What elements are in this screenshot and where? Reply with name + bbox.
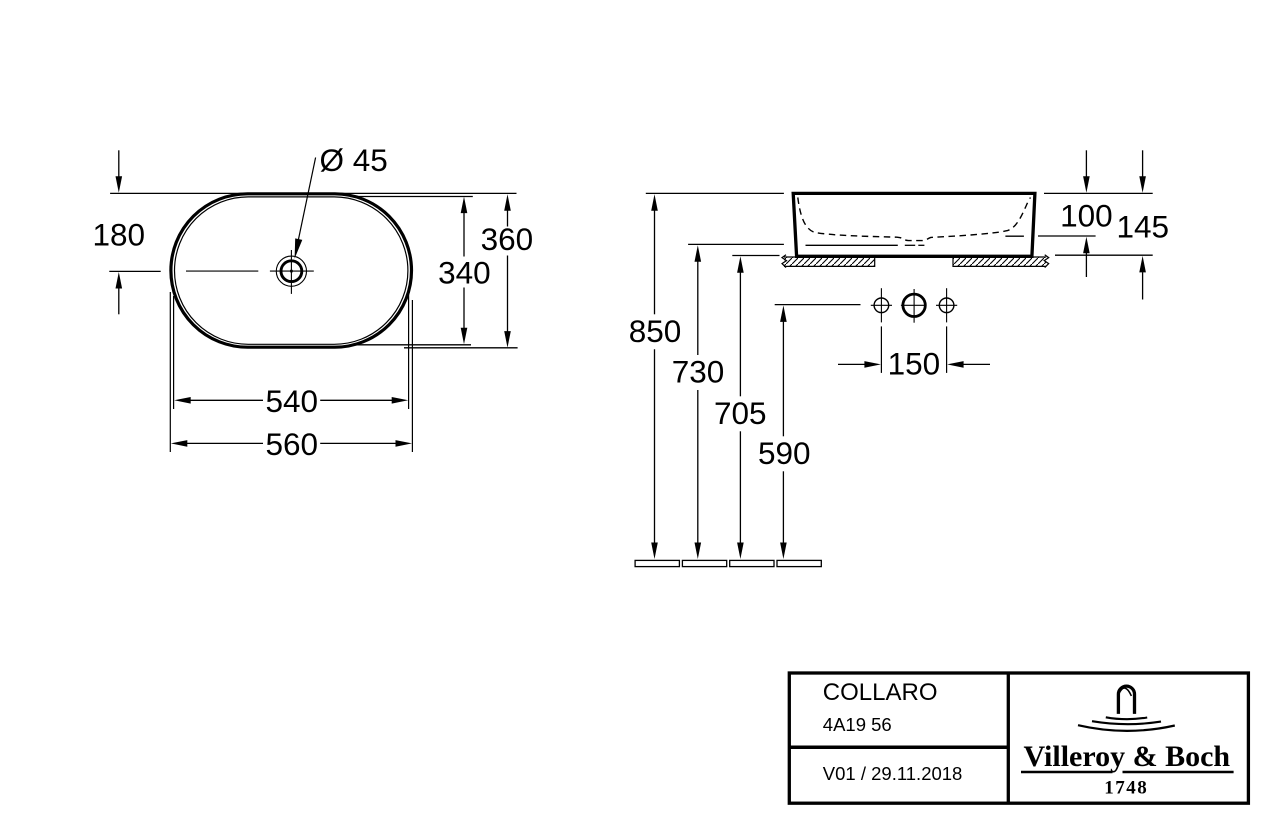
basin inner profile (hidden dashed line) [798, 198, 1031, 241]
leader line for diameter 45 [298, 158, 316, 244]
title block horizontal divider [789, 746, 1008, 750]
drain center dot [290, 270, 293, 273]
dimension 850: top extension line [646, 192, 784, 194]
faucet hole right (small circle with crosshair) [939, 298, 954, 313]
dimension 180: top arrow [118, 150, 120, 177]
dimension 340: vertical line with arrows [461, 197, 468, 214]
svg-text:Villeroy & Boch: Villeroy & Boch [1023, 740, 1230, 773]
dimension 340: top extension line [350, 196, 473, 198]
svg-text:850: 850 [629, 313, 682, 349]
svg-text:150: 150 [888, 346, 941, 382]
svg-text:100: 100 [1060, 197, 1113, 233]
svg-text:340: 340 [438, 254, 491, 290]
countertop hatched section right [953, 257, 1046, 266]
logo wordmark underline right [1123, 771, 1234, 774]
dimension 360: bottom extension line [404, 347, 518, 349]
basin interior line (right) [1005, 235, 1024, 237]
title block vertical divider [1007, 673, 1010, 803]
dimension 180: bottom arrow [118, 288, 120, 315]
dimension 705: top extension line [732, 255, 779, 257]
dimension 850: vertical line with arrows [651, 194, 658, 211]
countertop hatched section left [784, 257, 875, 266]
dimension 590: top extension line [775, 304, 861, 306]
svg-text:1748: 1748 [1104, 778, 1148, 799]
faucet hole left (small circle with crosshair) [874, 298, 889, 313]
svg-text:360: 360 [481, 221, 534, 257]
dimension 590: vertical line with arrows [780, 305, 787, 322]
title block outer border [789, 673, 1248, 803]
basin body outline (front view) [793, 193, 1035, 256]
logo faucet arch [1118, 686, 1134, 714]
drain hole outer thin circle [276, 256, 306, 286]
logo faucet arch inner line [1119, 688, 1132, 696]
basin inner rim (top view oval) [175, 197, 408, 344]
dimension 180: bottom extension line [109, 270, 160, 272]
svg-text:Ø 45: Ø 45 [319, 142, 387, 178]
dimension 145: top arrow [1142, 150, 1144, 177]
dimension 150: extension lines [880, 326, 882, 373]
logo ripple middle [1092, 721, 1161, 724]
faucet hole center (bold circle with crosshair) [903, 294, 925, 316]
dimension 560: left extension line [169, 292, 171, 452]
dimension 560: right extension line [411, 300, 413, 452]
dimension 705: vertical line with arrows [737, 256, 744, 273]
svg-text:705: 705 [714, 395, 767, 431]
svg-text:560: 560 [266, 426, 319, 462]
basin outer rim (top view oval) [171, 194, 412, 347]
dimension 730: top extension line [688, 243, 784, 245]
basin interior water line (solid, left) [806, 244, 898, 246]
dimension 540: line and arrows [174, 397, 191, 404]
dimension 100: top arrow [1085, 150, 1087, 177]
dimension 145: bottom extension line [1055, 254, 1153, 256]
basin interior water line dashes (center) [905, 244, 915, 246]
logo ripple large [1078, 725, 1175, 731]
svg-text:540: 540 [266, 383, 319, 419]
dimension 540: right extension line [408, 294, 410, 409]
drain hole bold circle [281, 261, 302, 282]
centerline segment left of drain [186, 270, 258, 272]
dimension 100: bottom extension line [1038, 235, 1096, 237]
drain crosshair vertical [290, 250, 292, 294]
leader arrowhead at drain [295, 238, 303, 258]
svg-text:COLLARO: COLLARO [823, 679, 938, 706]
svg-text:180: 180 [93, 216, 146, 252]
dimension 560: line and arrows [171, 440, 188, 447]
logo wordmark underline left [1021, 771, 1113, 774]
dimension 150: arrows outside [838, 363, 865, 365]
dimension 100/145: top extension line [1044, 192, 1153, 194]
dimension 145: bottom arrow [1139, 256, 1146, 273]
break (cut) zigzag right [1044, 255, 1049, 268]
break (cut) zigzag left [782, 255, 787, 268]
svg-text:4A19 56: 4A19 56 [823, 714, 892, 735]
dimension 100: bottom arrow [1083, 237, 1090, 254]
dimension 730: vertical line with arrows [695, 245, 702, 262]
dimension 340: bottom extension line [356, 344, 471, 346]
dimension 540: left extension line [173, 296, 175, 409]
drain crosshair horizontal [270, 270, 314, 272]
logo ripple small [1106, 717, 1147, 719]
dimension 360: vertical line with arrows [504, 194, 511, 211]
svg-text:590: 590 [758, 435, 811, 471]
ground/floor line boxes [635, 560, 679, 566]
svg-text:V01 / 29.11.2018: V01 / 29.11.2018 [823, 763, 963, 784]
svg-text:145: 145 [1117, 208, 1170, 244]
svg-text:730: 730 [672, 354, 725, 390]
top extension line (oval top, extends both sides) [110, 192, 516, 194]
